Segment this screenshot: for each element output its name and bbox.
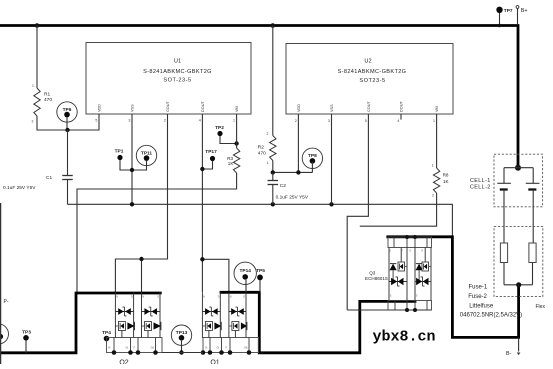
svg-text:2: 2 xyxy=(267,132,269,136)
svg-text:R2: R2 xyxy=(258,145,264,151)
wire TP6 stub xyxy=(66,117,68,130)
node junction VSS1 on B- line xyxy=(130,202,134,206)
node junction R2 on B+ rail xyxy=(271,23,276,28)
test point TP11 xyxy=(136,145,156,165)
svg-text:1: 1 xyxy=(32,84,34,88)
wire TP7 stub xyxy=(499,13,501,26)
test point TP4 xyxy=(104,336,110,342)
svg-text:SOT-23-5: SOT-23-5 xyxy=(163,78,191,84)
fuse Fuse-1 xyxy=(500,243,507,263)
svg-text:VDD: VDD xyxy=(297,104,301,112)
svg-text:TP5: TP5 xyxy=(256,268,265,274)
svg-text:COUT: COUT xyxy=(166,101,170,112)
wire P- thick bus xyxy=(0,293,160,353)
svg-text:4: 4 xyxy=(397,119,399,123)
svg-text:D: D xyxy=(131,296,133,299)
svg-text:Littelfuse: Littelfuse xyxy=(469,303,494,309)
wire TP5 stub xyxy=(259,280,261,292)
wire U2 VDD stub xyxy=(297,114,299,172)
node junction TP6/C1 xyxy=(65,128,69,132)
wire TP14 stub xyxy=(245,280,247,292)
svg-text:SOT23-5: SOT23-5 xyxy=(359,78,385,84)
wire TP2 stub xyxy=(220,136,237,144)
test point TP14 xyxy=(234,262,256,284)
wire R2 bottom node xyxy=(273,161,313,173)
transistor Q2 pin box xyxy=(107,338,163,353)
wire cell top bus xyxy=(504,168,533,184)
resistor R2 xyxy=(272,26,274,136)
svg-text:046702.5NR(2.5A/32V): 046702.5NR(2.5A/32V) xyxy=(460,312,522,318)
svg-text:2: 2 xyxy=(432,194,434,198)
wire U2 VM to R8 xyxy=(436,114,438,168)
node junction C2 on B- line xyxy=(271,202,275,206)
svg-text:DOUT: DOUT xyxy=(201,101,205,112)
wire TP13 stub xyxy=(181,341,183,353)
svg-text:ECH8601S: ECH8601S xyxy=(365,276,388,281)
svg-text:TP6: TP6 xyxy=(63,107,72,113)
svg-text:1: 1 xyxy=(433,119,435,123)
node junction DOUT gate branch xyxy=(200,257,204,261)
svg-text:TP8: TP8 xyxy=(308,153,317,159)
svg-text:CELL-1: CELL-1 xyxy=(470,178,491,184)
svg-text:TP13: TP13 xyxy=(176,330,188,336)
test point TP3 xyxy=(23,335,29,341)
wire TP11 stub xyxy=(132,161,147,170)
svg-text:5: 5 xyxy=(365,119,367,123)
wire U1 VM to R3 xyxy=(236,114,238,148)
svg-text:4: 4 xyxy=(199,119,201,123)
test point TP5 xyxy=(257,275,263,281)
capacitor C2 xyxy=(272,172,274,180)
node junction fuse output xyxy=(516,282,521,287)
svg-text:D: D xyxy=(218,296,220,299)
transistor Q3 top pin box xyxy=(388,237,432,248)
svg-text:1: 1 xyxy=(432,163,434,167)
svg-text:1K: 1K xyxy=(228,161,235,166)
wire R3 bottom to P- sense xyxy=(77,173,237,293)
resistor R8 xyxy=(433,168,439,193)
svg-text:1: 1 xyxy=(267,161,269,165)
svg-text:GI: GI xyxy=(217,347,220,350)
svg-text:Q2: Q2 xyxy=(119,360,128,365)
svg-text:TP14: TP14 xyxy=(239,268,251,274)
test point TP7 xyxy=(496,7,502,13)
node junction VDD2 xyxy=(296,170,300,174)
wire TP17 stub xyxy=(202,161,212,169)
svg-text:N: N xyxy=(142,296,144,299)
svg-text:1K: 1K xyxy=(443,179,450,184)
svg-text:COUT: COUT xyxy=(367,101,371,112)
wire R8 bottom to pack- net xyxy=(360,193,437,226)
node junction R1 on B+ rail xyxy=(35,23,40,28)
transistor Q3 cell B xyxy=(414,248,416,301)
battery CELL-1 xyxy=(497,182,511,184)
svg-text:VDD: VDD xyxy=(98,104,102,112)
svg-text:P-: P- xyxy=(4,299,9,305)
wire U1 DOUT down to Q1 gates xyxy=(201,114,203,292)
wire Q3 drain thick bus to B- xyxy=(388,237,519,338)
battery CELL-2 xyxy=(526,182,540,184)
svg-text:470: 470 xyxy=(258,151,266,157)
node junction COUT gate branch xyxy=(139,257,143,261)
svg-text:Fuse-2: Fuse-2 xyxy=(468,294,487,300)
svg-text:TP7: TP7 xyxy=(504,8,513,14)
svg-text:N: N xyxy=(203,296,205,299)
wire B- line (VSS net) xyxy=(68,204,453,237)
svg-text:Q1: Q1 xyxy=(210,360,219,365)
test point TP2 xyxy=(217,131,222,136)
fuse Fuse-2 xyxy=(529,243,536,263)
svg-text:0.1uF 25V Y5V: 0.1uF 25V Y5V xyxy=(3,185,36,191)
svg-text:C1: C1 xyxy=(46,175,52,181)
box cells dashed xyxy=(494,154,543,207)
wire TP8 stub xyxy=(311,162,313,173)
svg-text:DOUT: DOUT xyxy=(400,101,404,112)
node junction VSS2 on B- line xyxy=(329,202,333,206)
wire U2 COUT to Q3 gate line xyxy=(347,114,368,310)
transistor Q1 cell B xyxy=(228,292,230,338)
wire U1 VSS down to B- line xyxy=(131,114,133,204)
svg-text:VM: VM xyxy=(235,106,239,112)
capacitor C1 xyxy=(67,130,69,176)
svg-text:Fuse-1: Fuse-1 xyxy=(469,284,488,290)
svg-text:GI: GI xyxy=(126,347,129,350)
svg-text:470: 470 xyxy=(44,97,52,103)
svg-text:CELL-2: CELL-2 xyxy=(470,184,491,190)
node junction TP2 on VM xyxy=(234,141,238,145)
svg-text:N: N xyxy=(116,296,118,299)
pin U2 DOUT stub xyxy=(400,114,402,120)
transistor Q2 cell A xyxy=(114,292,116,338)
wire Q2-Q1 source link xyxy=(162,352,203,354)
svg-text:2: 2 xyxy=(32,120,34,124)
op-amp U2 box xyxy=(286,44,453,115)
svg-text:VSS: VSS xyxy=(330,104,334,112)
svg-text:U1: U1 xyxy=(174,59,181,65)
node B+ terminal pin xyxy=(516,6,519,9)
svg-text:R1: R1 xyxy=(44,91,50,97)
test point TP15 cut at left edge xyxy=(0,324,9,344)
box fuses dashed xyxy=(494,226,543,296)
wire R1 bottom to U1 VDD xyxy=(37,114,99,130)
node junction R2/C2/VDD2 xyxy=(271,170,275,174)
wire fuse bottoms join xyxy=(504,263,533,285)
svg-text:R8: R8 xyxy=(443,172,449,177)
transistor Q3 cell A xyxy=(388,248,390,301)
svg-text:S-8241ABKMC-GBKT2G: S-8241ABKMC-GBKT2G xyxy=(143,69,212,75)
svg-text:TP4: TP4 xyxy=(102,330,111,336)
svg-text:5: 5 xyxy=(95,119,97,123)
svg-text:2: 2 xyxy=(295,119,297,123)
resistor R3 xyxy=(233,148,239,173)
test point TP8 xyxy=(302,148,322,168)
wire Q3 gate line xyxy=(347,309,431,311)
svg-text:VI: VI xyxy=(108,347,111,350)
svg-text:Flex: Flex xyxy=(536,304,546,310)
svg-text:TP17: TP17 xyxy=(205,149,217,155)
svg-text:N: N xyxy=(230,296,232,299)
svg-text:S-8241ABKMC-GBKT2G: S-8241ABKMC-GBKT2G xyxy=(338,69,407,75)
transistor Q2 cell B xyxy=(141,292,143,338)
op-amp U1 box xyxy=(86,43,251,115)
wire Q1 thick bus and pack- route xyxy=(221,292,415,353)
svg-text:TP11: TP11 xyxy=(141,150,153,156)
svg-text:C2: C2 xyxy=(280,183,286,189)
svg-text:ybx8.cn: ybx8.cn xyxy=(373,329,436,346)
svg-text:B+: B+ xyxy=(521,8,528,14)
svg-text:1: 1 xyxy=(233,119,235,123)
svg-text:TP2: TP2 xyxy=(215,125,224,131)
wire COUT branch to second gate xyxy=(141,259,143,292)
svg-text:D: D xyxy=(243,296,245,299)
svg-text:VM: VM xyxy=(435,106,439,112)
svg-text:U2: U2 xyxy=(364,59,371,65)
svg-text:0.1uF 25V Y5V: 0.1uF 25V Y5V xyxy=(276,195,309,201)
node junction TP17 on DOUT xyxy=(200,167,204,171)
node junction VSS/TP1/TP11 xyxy=(130,168,134,172)
test point TP13 xyxy=(171,325,191,345)
transistor Q3 bottom pin box xyxy=(388,301,432,311)
svg-text:Q3: Q3 xyxy=(369,270,376,275)
wire B+ top rail (thick) xyxy=(0,26,518,168)
svg-text:VI: VI xyxy=(205,347,208,350)
transistor Q1 pin box xyxy=(203,338,259,353)
svg-text:VSS: VSS xyxy=(131,104,135,112)
wire TP1 stub xyxy=(120,160,132,170)
test point TP6 xyxy=(57,102,77,122)
wire B- terminal stub xyxy=(518,337,520,351)
svg-text:TP1: TP1 xyxy=(115,148,124,154)
svg-text:2: 2 xyxy=(164,119,166,123)
wire cells to fuses xyxy=(504,190,533,244)
wire TP3 stub xyxy=(25,340,27,353)
svg-text:3: 3 xyxy=(128,119,130,123)
wire U1 COUT to Q2 gates xyxy=(115,114,167,292)
resistor R1 xyxy=(36,26,38,89)
wire U2 VSS down to B- line xyxy=(331,114,333,204)
svg-text:TP3: TP3 xyxy=(22,329,31,335)
svg-text:D: D xyxy=(157,296,159,299)
svg-text:3: 3 xyxy=(328,119,330,123)
transistor Q1 cell A xyxy=(201,292,203,338)
svg-text:B-: B- xyxy=(506,351,512,357)
wire DOUT jog to second gate xyxy=(202,259,229,292)
test point TP17 xyxy=(210,156,215,161)
left edge scan border xyxy=(0,203,2,364)
test point TP1 xyxy=(117,155,122,160)
node B+ junction at cells xyxy=(515,165,521,171)
